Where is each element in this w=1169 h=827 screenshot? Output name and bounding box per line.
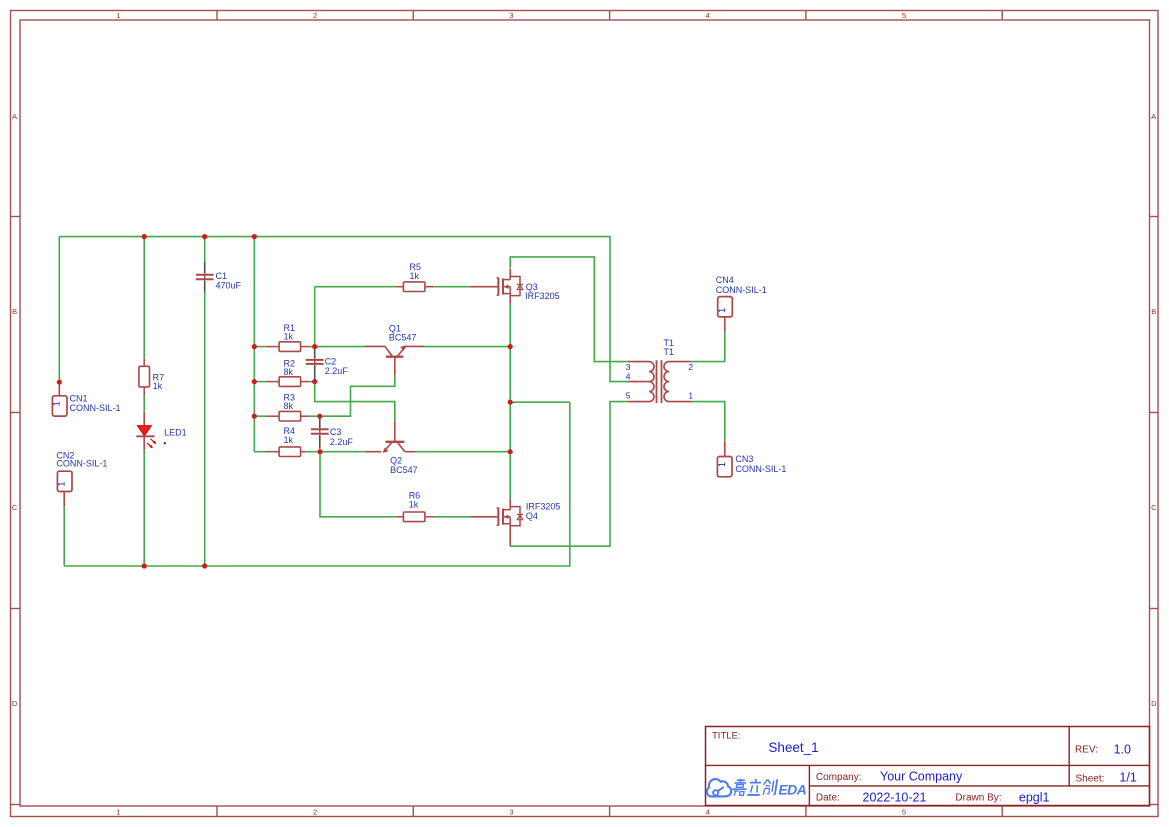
svg-text:Sheet:: Sheet: [1076,773,1105,784]
svg-text:epgl1: epgl1 [1019,790,1050,804]
svg-text:CONN-SIL-1: CONN-SIL-1 [56,458,107,468]
svg-text:2.2uF: 2.2uF [325,366,349,376]
svg-text:CN3: CN3 [735,454,753,464]
svg-text:3: 3 [509,11,513,20]
svg-text:D: D [1151,699,1157,708]
svg-text:1: 1 [717,462,727,467]
svg-text:B: B [1151,307,1156,316]
svg-text:1.0: 1.0 [1114,742,1131,756]
svg-text:IRF3205: IRF3205 [526,502,561,512]
svg-text:5: 5 [902,11,906,20]
svg-text:1: 1 [57,481,67,486]
svg-text:Sheet_1: Sheet_1 [768,740,818,755]
svg-text:Your Company: Your Company [880,769,963,783]
svg-text:3: 3 [509,807,513,816]
svg-text:8k: 8k [284,367,294,377]
svg-text:BC547: BC547 [390,465,418,475]
svg-text:C3: C3 [330,427,342,437]
svg-text:A: A [1151,112,1156,121]
svg-text:470uF: 470uF [216,281,242,291]
svg-text:1k: 1k [409,500,419,510]
svg-text:1k: 1k [284,435,294,445]
svg-text:2: 2 [313,11,317,20]
svg-text:IRF3205: IRF3205 [525,291,560,301]
svg-text:1k: 1k [410,271,420,281]
svg-text:4: 4 [626,371,631,381]
svg-text:CONN-SIL-1: CONN-SIL-1 [716,285,767,295]
svg-text:1: 1 [52,401,62,406]
svg-text:1k: 1k [284,332,294,342]
svg-text:Drawn By:: Drawn By: [955,792,1001,803]
svg-text:1: 1 [116,807,120,816]
svg-text:Company:: Company: [816,772,862,783]
svg-text:2022-10-21: 2022-10-21 [863,790,927,804]
svg-text:C1: C1 [216,271,228,281]
svg-text:2: 2 [313,807,317,816]
svg-text:CONN-SIL-1: CONN-SIL-1 [70,403,121,413]
svg-text:3: 3 [626,362,631,372]
svg-text:Q2: Q2 [390,455,402,465]
svg-text:CONN-SIL-1: CONN-SIL-1 [735,464,786,474]
svg-text:5: 5 [626,390,631,400]
svg-text:C: C [1151,503,1157,512]
svg-text:4: 4 [706,11,710,20]
svg-text:D: D [12,699,18,708]
svg-text:1: 1 [116,11,120,20]
svg-text:T1: T1 [664,347,675,357]
svg-text:4: 4 [706,807,710,816]
svg-text:1/1: 1/1 [1119,770,1136,784]
svg-text:EDA: EDA [778,782,806,798]
svg-text:CN4: CN4 [716,275,734,285]
svg-text:B: B [12,307,17,316]
svg-text:C: C [12,503,18,512]
svg-text:Q4: Q4 [526,511,538,521]
svg-text:Date:: Date: [816,792,840,803]
svg-text:BC547: BC547 [389,333,417,343]
svg-text:5: 5 [902,807,906,816]
svg-text:1: 1 [688,390,693,400]
svg-text:LED1: LED1 [164,428,187,438]
svg-text:2.2uF: 2.2uF [330,437,354,447]
svg-text:A: A [12,112,17,121]
svg-text:REV:: REV: [1075,745,1098,756]
svg-text:1: 1 [717,308,727,313]
svg-text:2: 2 [688,362,693,372]
svg-text:1k: 1k [153,381,163,391]
svg-text:8k: 8k [284,401,294,411]
svg-text:TITLE:: TITLE: [712,731,741,742]
